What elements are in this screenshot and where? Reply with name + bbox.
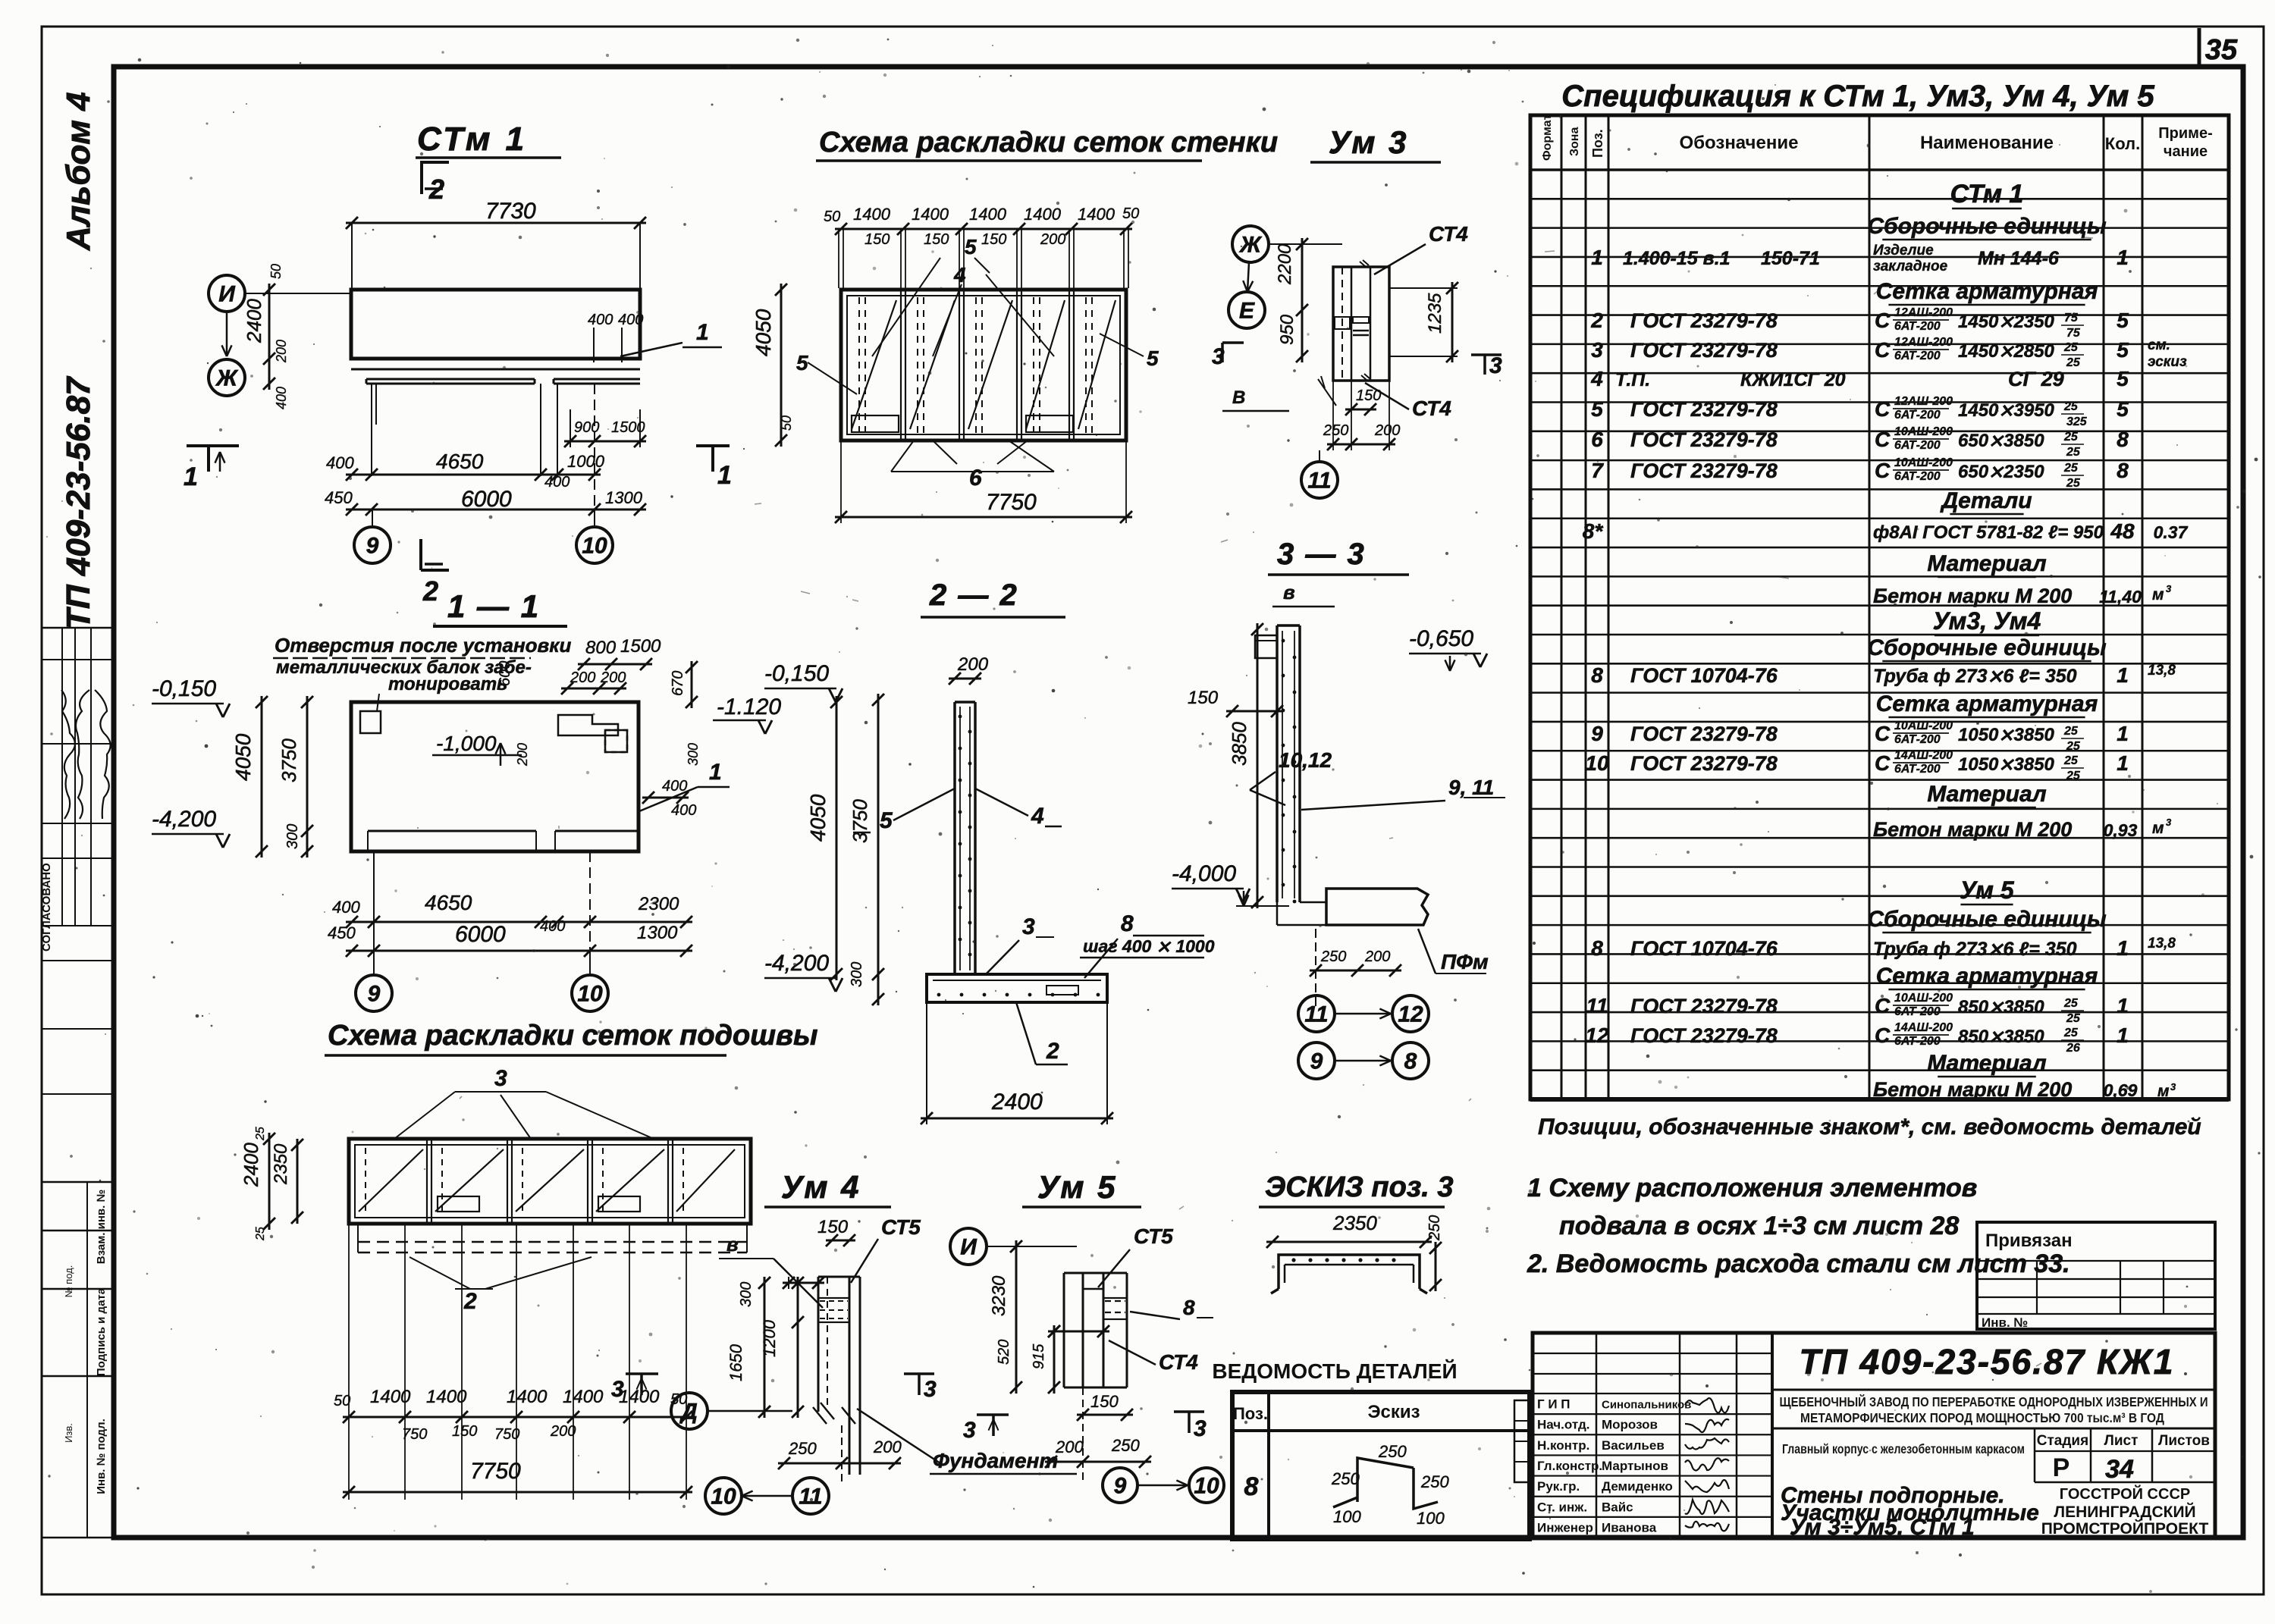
svg-text:№ под.: № под. <box>63 1265 74 1298</box>
svg-text:250: 250 <box>1420 1472 1449 1491</box>
svg-text:300: 300 <box>849 962 865 987</box>
svg-text:8: 8 <box>1121 911 1134 936</box>
svg-text:6000: 6000 <box>455 922 506 947</box>
svg-text:Гл.констр.: Гл.констр. <box>1537 1459 1602 1473</box>
svg-text:250: 250 <box>1331 1469 1360 1488</box>
svg-text:3: 3 <box>963 1418 976 1443</box>
svg-text:ГОСТ 23279-78: ГОСТ 23279-78 <box>1630 752 1778 775</box>
svg-text:900: 900 <box>574 419 599 436</box>
svg-text:14АШ-200: 14АШ-200 <box>1894 749 1953 762</box>
svg-text:-4,200: -4,200 <box>152 807 216 832</box>
svg-text:Ум 4: Ум 4 <box>781 1169 861 1205</box>
svg-text:1: 1 <box>184 462 198 491</box>
svg-text:2: 2 <box>428 174 444 205</box>
svg-text:ГОСТ 23279-78: ГОСТ 23279-78 <box>1630 459 1778 482</box>
svg-text:150: 150 <box>981 231 1006 248</box>
svg-text:200: 200 <box>873 1437 902 1456</box>
svg-text:1: 1 <box>709 760 722 785</box>
svg-text:см.: см. <box>2148 337 2170 353</box>
svg-text:6АТ-200: 6АТ-200 <box>1894 409 1941 422</box>
svg-text:8: 8 <box>1183 1296 1195 1319</box>
svg-text:тонировать: тонировать <box>388 674 507 694</box>
svg-text:150: 150 <box>1188 688 1219 708</box>
svg-text:Поз.: Поз. <box>1233 1404 1268 1423</box>
svg-text:6АТ-200: 6АТ-200 <box>1894 320 1941 333</box>
svg-text:400: 400 <box>274 387 289 409</box>
svg-text:150: 150 <box>452 1423 477 1440</box>
svg-text:1300: 1300 <box>637 923 678 943</box>
svg-text:ГОСТ 23279-78: ГОСТ 23279-78 <box>1630 723 1778 745</box>
svg-text:6: 6 <box>969 466 982 491</box>
svg-text:1: 1 <box>2117 994 2129 1017</box>
svg-text:Ум3, Ум4: Ум3, Ум4 <box>1933 607 2041 635</box>
svg-text:Материал: Материал <box>1927 1051 2047 1076</box>
svg-text:25: 25 <box>2066 770 2081 782</box>
svg-text:6АТ-200: 6АТ-200 <box>1894 439 1941 452</box>
svg-text:3: 3 <box>1489 353 1502 378</box>
svg-text:СТ4: СТ4 <box>1412 397 1451 420</box>
svg-text:200: 200 <box>1374 422 1400 439</box>
svg-text:5: 5 <box>880 808 893 833</box>
svg-text:1: 1 <box>1591 246 1603 269</box>
svg-text:СОГЛАСОВАНО: СОГЛАСОВАНО <box>40 863 53 952</box>
svg-text:600: 600 <box>497 661 513 686</box>
svg-text:ЛЕНИНГРАДСКИЙ: ЛЕНИНГРАДСКИЙ <box>2054 1503 2195 1521</box>
svg-text:25: 25 <box>254 1227 267 1241</box>
svg-text:Схема раскладки сеток стенки: Схема раскладки сеток стенки <box>819 127 1278 158</box>
svg-text:Сетка арматурная: Сетка арматурная <box>1876 691 2098 716</box>
svg-text:в: в <box>726 1233 739 1256</box>
svg-text:5: 5 <box>796 351 808 375</box>
svg-text:2: 2 <box>1046 1039 1059 1064</box>
svg-text:325: 325 <box>2066 415 2088 428</box>
svg-text:ПФм: ПФм <box>1441 950 1489 973</box>
svg-text:СТ5: СТ5 <box>1134 1224 1173 1248</box>
svg-text:СТ4: СТ4 <box>1159 1350 1198 1374</box>
svg-text:3750: 3750 <box>849 799 871 843</box>
svg-text:200: 200 <box>550 1423 576 1440</box>
svg-text:1400: 1400 <box>370 1387 411 1407</box>
svg-text:Сборочные единицы: Сборочные единицы <box>1867 214 2107 239</box>
svg-text:25: 25 <box>2063 1027 2079 1039</box>
svg-text:26: 26 <box>2066 1042 2080 1055</box>
svg-text:25: 25 <box>2063 341 2079 354</box>
svg-text:250: 250 <box>1320 948 1346 965</box>
svg-text:С: С <box>1875 397 1891 421</box>
svg-text:1 Схему расположения элементов: 1 Схему расположения элементов <box>1527 1174 1977 1202</box>
svg-text:100: 100 <box>1333 1507 1361 1526</box>
svg-text:1050⨯3850: 1050⨯3850 <box>1958 725 2055 745</box>
svg-text:12: 12 <box>1585 1024 1609 1047</box>
svg-text:Позиции, обозначенные знаком*,: Позиции, обозначенные знаком*, см. ведом… <box>1538 1115 2201 1140</box>
svg-text:1400: 1400 <box>853 205 891 224</box>
svg-text:Бетон марки М 200: Бетон марки М 200 <box>1873 585 2072 607</box>
svg-text:1: 1 <box>2117 1024 2129 1047</box>
svg-text:6АТ-200: 6АТ-200 <box>1894 470 1941 483</box>
svg-text:1: 1 <box>2117 663 2129 687</box>
svg-text:200: 200 <box>957 654 989 675</box>
svg-text:Инженер: Инженер <box>1537 1520 1593 1535</box>
svg-text:3750: 3750 <box>278 738 300 782</box>
svg-text:Т.П.: Т.П. <box>1615 369 1650 390</box>
svg-text:чание: чание <box>2164 143 2208 160</box>
svg-text:650⨯2350: 650⨯2350 <box>1958 462 2044 482</box>
svg-text:300: 300 <box>686 743 701 766</box>
svg-text:3: 3 <box>2170 1081 2176 1093</box>
svg-text:Изв.: Изв. <box>63 1423 74 1443</box>
svg-text:670: 670 <box>670 671 686 696</box>
svg-text:Е: Е <box>1239 299 1255 324</box>
svg-text:Альбом 4: Альбом 4 <box>60 92 97 251</box>
svg-text:25: 25 <box>2063 431 2079 444</box>
svg-text:2: 2 <box>463 1289 477 1314</box>
svg-text:4: 4 <box>1590 367 1603 390</box>
svg-text:300: 300 <box>284 824 301 849</box>
svg-text:2300: 2300 <box>638 894 679 914</box>
svg-text:МЕТАМОРФИЧЕСКИХ ПОРОД МОЩНОСТЬ: МЕТАМОРФИЧЕСКИХ ПОРОД МОЩНОСТЬЮ 700 тыс.… <box>1800 1410 2164 1425</box>
svg-text:Ст. инж.: Ст. инж. <box>1537 1500 1587 1514</box>
svg-text:ГОСТ 23279-78: ГОСТ 23279-78 <box>1630 995 1778 1017</box>
svg-text:1400: 1400 <box>969 205 1007 224</box>
svg-text:СТм 1: СТм 1 <box>1950 180 2024 208</box>
svg-text:ф8АІ ГОСТ 5781-82 ℓ= 950: ф8АІ ГОСТ 5781-82 ℓ= 950 <box>1873 522 2104 543</box>
svg-text:4050: 4050 <box>231 733 255 781</box>
svg-text:Морозов: Морозов <box>1602 1418 1658 1432</box>
svg-text:35: 35 <box>2205 34 2238 66</box>
svg-text:8: 8 <box>2117 459 2129 482</box>
svg-text:1.400-15 в.1: 1.400-15 в.1 <box>1623 248 1731 269</box>
svg-text:10: 10 <box>711 1484 736 1510</box>
svg-text:Д: Д <box>679 1400 698 1425</box>
svg-text:С: С <box>1875 338 1891 362</box>
svg-text:915: 915 <box>1031 1343 1047 1369</box>
svg-text:850⨯3850: 850⨯3850 <box>1958 1027 2044 1047</box>
svg-text:50: 50 <box>1122 205 1139 222</box>
svg-text:Лист: Лист <box>2104 1433 2138 1449</box>
svg-text:1: 1 <box>717 461 732 490</box>
svg-text:2 — 2: 2 — 2 <box>929 578 1018 612</box>
svg-text:4050: 4050 <box>752 309 775 356</box>
svg-text:11: 11 <box>1304 1002 1328 1027</box>
svg-text:1400: 1400 <box>507 1387 548 1407</box>
svg-text:150: 150 <box>1090 1392 1119 1411</box>
svg-text:1: 1 <box>2117 751 2129 775</box>
svg-text:Зона: Зона <box>1568 127 1581 156</box>
svg-text:10: 10 <box>582 534 607 559</box>
svg-text:3 — 3: 3 — 3 <box>1277 538 1366 571</box>
svg-text:9, 11: 9, 11 <box>1448 776 1494 799</box>
svg-text:50: 50 <box>334 1393 350 1409</box>
svg-text:0,69: 0,69 <box>2104 1080 2138 1100</box>
svg-text:ПРОМСТРОЙПРОЕКТ: ПРОМСТРОЙПРОЕКТ <box>2041 1519 2209 1538</box>
svg-text:ВЕДОМОСТЬ ДЕТАЛЕЙ: ВЕДОМОСТЬ ДЕТАЛЕЙ <box>1212 1359 1457 1383</box>
svg-text:9: 9 <box>1114 1474 1127 1499</box>
svg-text:-4,200: -4,200 <box>764 951 829 976</box>
svg-text:1: 1 <box>696 320 709 345</box>
svg-text:750: 750 <box>494 1426 519 1443</box>
svg-text:6АТ-200: 6АТ-200 <box>1894 1035 1941 1048</box>
svg-text:14АШ-200: 14АШ-200 <box>1894 1021 1953 1034</box>
svg-text:1235: 1235 <box>1425 293 1445 334</box>
svg-text:3: 3 <box>1022 914 1035 939</box>
svg-text:10АШ-200: 10АШ-200 <box>1894 720 1953 732</box>
svg-text:В: В <box>1232 387 1245 408</box>
svg-text:400: 400 <box>618 312 643 328</box>
svg-text:5: 5 <box>1591 397 1603 421</box>
svg-text:48: 48 <box>2110 519 2135 543</box>
svg-text:Листов: Листов <box>2158 1433 2210 1449</box>
svg-text:6АТ-200: 6АТ-200 <box>1894 763 1941 776</box>
svg-text:10АШ-200: 10АШ-200 <box>1894 425 1953 438</box>
svg-text:С: С <box>1875 751 1891 775</box>
svg-text:ГОССТРОЙ СССР: ГОССТРОЙ СССР <box>2060 1484 2190 1503</box>
svg-text:250: 250 <box>788 1439 817 1458</box>
svg-text:Васильев: Васильев <box>1602 1438 1665 1453</box>
svg-text:Отверстия после установки: Отверстия после установки <box>275 634 571 657</box>
svg-text:Главный корпус с железобетонны: Главный корпус с железобетонным каркасом <box>1782 1441 2025 1456</box>
svg-text:Р: Р <box>2053 1453 2070 1482</box>
svg-text:Сетка арматурная: Сетка арматурная <box>1876 279 2098 304</box>
svg-text:10АШ-200: 10АШ-200 <box>1894 456 1953 469</box>
svg-text:СГ 29: СГ 29 <box>2008 368 2064 390</box>
svg-text:6АТ-200: 6АТ-200 <box>1894 350 1941 362</box>
svg-text:Труба ф 273⨯6 ℓ= 350: Труба ф 273⨯6 ℓ= 350 <box>1873 666 2077 687</box>
svg-text:1400: 1400 <box>619 1387 660 1407</box>
svg-text:1400: 1400 <box>563 1387 604 1407</box>
svg-text:400: 400 <box>671 802 696 819</box>
svg-text:75: 75 <box>2064 312 2079 324</box>
svg-text:Труба ф 273⨯6 ℓ= 350: Труба ф 273⨯6 ℓ= 350 <box>1873 939 2077 960</box>
svg-text:Материал: Материал <box>1927 551 2047 576</box>
svg-text:8: 8 <box>1591 936 1603 960</box>
svg-text:2: 2 <box>422 575 438 607</box>
svg-text:75: 75 <box>2066 327 2081 340</box>
svg-text:10: 10 <box>577 982 603 1007</box>
svg-text:25: 25 <box>2063 997 2079 1010</box>
svg-text:1400: 1400 <box>1024 205 1062 224</box>
svg-text:1400: 1400 <box>426 1387 467 1407</box>
svg-text:Обозначение: Обозначение <box>1680 133 1799 153</box>
svg-text:1650: 1650 <box>726 1343 745 1381</box>
svg-text:Бетон марки М 200: Бетон марки М 200 <box>1873 1078 2072 1101</box>
svg-text:шаг 400 ⨯ 1000: шаг 400 ⨯ 1000 <box>1083 936 1215 956</box>
svg-text:Инв. № подл.: Инв. № подл. <box>95 1419 108 1494</box>
svg-text:5: 5 <box>2117 338 2129 362</box>
svg-text:8: 8 <box>1404 1049 1417 1074</box>
svg-text:8: 8 <box>1591 663 1603 687</box>
svg-text:ГОСТ 23279-78: ГОСТ 23279-78 <box>1630 309 1778 332</box>
svg-text:Ум 5: Ум 5 <box>1960 876 2014 904</box>
svg-text:300: 300 <box>738 1282 755 1307</box>
svg-text:Мартынов: Мартынов <box>1602 1459 1668 1473</box>
svg-text:3: 3 <box>1194 1416 1207 1441</box>
svg-text:9: 9 <box>1310 1049 1323 1074</box>
svg-text:Спецификация к СТм 1, Ум3,: Спецификация к СТм 1, Ум3, Ум 4, Ум 5 <box>1561 80 2154 113</box>
svg-text:200: 200 <box>1055 1437 1084 1456</box>
svg-text:0,93: 0,93 <box>2104 820 2138 840</box>
svg-text:ЭСКИЗ поз. 3: ЭСКИЗ поз. 3 <box>1265 1171 1453 1203</box>
svg-text:9: 9 <box>1591 722 1603 745</box>
svg-text:4050: 4050 <box>806 794 830 842</box>
svg-text:-1.120: -1.120 <box>717 694 781 720</box>
svg-text:12: 12 <box>1398 1002 1423 1027</box>
svg-text:С: С <box>1875 1024 1891 1047</box>
svg-text:1: 1 <box>2117 722 2129 745</box>
svg-text:400: 400 <box>326 453 354 472</box>
svg-text:1450⨯2850: 1450⨯2850 <box>1958 341 2055 362</box>
svg-text:3230: 3230 <box>989 1275 1009 1316</box>
svg-text:СТ4: СТ4 <box>1429 222 1468 246</box>
svg-text:25: 25 <box>2063 462 2079 475</box>
svg-text:25: 25 <box>2063 400 2079 413</box>
svg-text:2400: 2400 <box>991 1089 1043 1115</box>
svg-text:в: в <box>1283 581 1295 604</box>
svg-text:3: 3 <box>1591 338 1603 362</box>
svg-text:2400: 2400 <box>240 1143 262 1187</box>
svg-text:3850: 3850 <box>1228 722 1250 766</box>
svg-text:13,8: 13,8 <box>2148 663 2176 679</box>
svg-text:-0,650: -0,650 <box>1409 626 1473 651</box>
svg-text:Детали: Детали <box>1939 488 2032 513</box>
svg-text:-0,150: -0,150 <box>764 661 829 686</box>
svg-text:-4,000: -4,000 <box>1172 861 1236 886</box>
svg-text:ГОСТ 23279-78: ГОСТ 23279-78 <box>1630 1024 1778 1047</box>
svg-text:4: 4 <box>953 263 966 287</box>
svg-text:Стадия: Стадия <box>2037 1433 2088 1449</box>
svg-text:10: 10 <box>1194 1474 1219 1499</box>
svg-text:Кол.: Кол. <box>2105 134 2140 153</box>
svg-text:Ум 3÷Ум5. СТм 1: Ум 3÷Ум5. СТм 1 <box>1790 1515 1975 1540</box>
svg-text:9: 9 <box>366 534 379 559</box>
svg-text:Сборочные единицы: Сборочные единицы <box>1867 907 2107 932</box>
svg-text:4650: 4650 <box>425 891 472 914</box>
svg-text:И: И <box>218 282 236 307</box>
svg-text:200: 200 <box>1040 231 1065 248</box>
svg-text:Подпись и дата: Подпись и дата <box>95 1287 108 1376</box>
svg-text:8: 8 <box>2117 428 2129 451</box>
svg-text:7750: 7750 <box>986 490 1037 515</box>
svg-text:Сетка арматурная: Сетка арматурная <box>1876 964 2098 989</box>
svg-text:2. Ведомость расхода стали см: 2. Ведомость расхода стали см лист 33. <box>1527 1249 2070 1278</box>
svg-text:5: 5 <box>2117 309 2129 332</box>
svg-text:Сборочные единицы: Сборочные единицы <box>1867 635 2107 660</box>
svg-text:м: м <box>2152 820 2164 837</box>
svg-text:200: 200 <box>1364 948 1390 965</box>
svg-text:2350: 2350 <box>271 1143 291 1185</box>
svg-text:Наименование: Наименование <box>1920 133 2054 153</box>
svg-text:ТП 409-23-56.87 КЖ1: ТП 409-23-56.87 КЖ1 <box>1800 1342 2175 1381</box>
svg-text:м: м <box>2152 586 2164 604</box>
svg-text:0.37: 0.37 <box>2154 522 2189 542</box>
svg-text:подвала в осях 1÷3 см лист 28: подвала в осях 1÷3 см лист 28 <box>1559 1212 1959 1240</box>
svg-text:ГОСТ 10704-76: ГОСТ 10704-76 <box>1630 937 1778 960</box>
svg-text:1400: 1400 <box>1078 205 1116 224</box>
svg-text:Ум 5: Ум 5 <box>1037 1169 1118 1205</box>
svg-text:25: 25 <box>2066 446 2081 459</box>
svg-text:Инв. №: Инв. № <box>1982 1315 2028 1330</box>
svg-text:11: 11 <box>1586 994 1608 1017</box>
svg-text:25: 25 <box>254 1127 267 1141</box>
svg-text:450: 450 <box>325 488 353 507</box>
svg-text:250: 250 <box>1323 422 1348 439</box>
svg-text:Демиденко: Демиденко <box>1602 1479 1673 1494</box>
svg-text:150: 150 <box>924 231 949 248</box>
svg-text:850⨯3850: 850⨯3850 <box>1958 997 2044 1017</box>
svg-text:150-71: 150-71 <box>1761 248 1820 269</box>
svg-text:50: 50 <box>824 208 840 225</box>
svg-text:-0,150: -0,150 <box>152 676 216 701</box>
svg-text:Иванова: Иванова <box>1602 1520 1657 1535</box>
svg-text:С: С <box>1875 309 1891 332</box>
svg-text:2350: 2350 <box>1332 1212 1377 1234</box>
svg-text:ГОСТ 10704-76: ГОСТ 10704-76 <box>1630 664 1778 687</box>
svg-text:1500: 1500 <box>620 636 661 657</box>
svg-text:450: 450 <box>328 923 356 942</box>
svg-text:100: 100 <box>1417 1509 1445 1528</box>
svg-text:25: 25 <box>2066 740 2081 753</box>
svg-text:6АТ-200: 6АТ-200 <box>1894 1005 1941 1018</box>
svg-text:3: 3 <box>1212 344 1225 369</box>
svg-text:1000: 1000 <box>567 452 605 471</box>
svg-text:С: С <box>1875 428 1891 451</box>
svg-text:5: 5 <box>1147 346 1159 370</box>
svg-text:6000: 6000 <box>461 487 512 512</box>
svg-text:Бетон марки М 200: Бетон марки М 200 <box>1873 818 2072 841</box>
svg-text:11,40: 11,40 <box>2099 587 2142 607</box>
svg-text:11: 11 <box>1307 469 1331 494</box>
svg-text:Поз.: Поз. <box>1590 129 1605 158</box>
svg-text:закладное: закладное <box>1873 259 1948 274</box>
svg-text:200: 200 <box>515 743 530 767</box>
svg-text:Фундамент: Фундамент <box>933 1449 1058 1472</box>
svg-text:250: 250 <box>1378 1442 1407 1461</box>
svg-text:И: И <box>960 1235 977 1260</box>
svg-text:10АШ-200: 10АШ-200 <box>1894 992 1953 1005</box>
svg-text:7730: 7730 <box>485 199 536 224</box>
svg-text:ГОСТ 23279-78: ГОСТ 23279-78 <box>1630 339 1778 362</box>
svg-text:34: 34 <box>2105 1455 2134 1484</box>
svg-text:9: 9 <box>368 982 381 1007</box>
svg-text:Привязан: Привязан <box>1985 1231 2073 1251</box>
svg-text:-1,000: -1,000 <box>436 732 497 755</box>
svg-text:1200: 1200 <box>760 1319 779 1357</box>
svg-text:ТП 409-23-56.87: ТП 409-23-56.87 <box>60 375 97 629</box>
svg-text:1: 1 <box>2117 936 2129 960</box>
svg-text:750: 750 <box>402 1426 427 1443</box>
svg-text:Нач.отд.: Нач.отд. <box>1537 1418 1589 1432</box>
svg-text:1 — 1: 1 — 1 <box>447 588 540 624</box>
svg-text:1450⨯3950: 1450⨯3950 <box>1958 400 2055 421</box>
svg-text:Г И П: Г И П <box>1537 1397 1571 1412</box>
svg-text:ЩЕБЕНОЧНЫЙ ЗАВОД ПО ПЕРЕРАБОТК: ЩЕБЕНОЧНЫЙ ЗАВОД ПО ПЕРЕРАБОТКЕ ОДНОРОДН… <box>1780 1394 2208 1409</box>
svg-text:6АТ-200: 6АТ-200 <box>1894 733 1941 746</box>
svg-text:4650: 4650 <box>436 450 484 473</box>
svg-text:7750: 7750 <box>470 1459 521 1484</box>
svg-text:Синопальников: Синопальников <box>1602 1399 1691 1412</box>
svg-text:1400: 1400 <box>912 205 949 224</box>
svg-text:Изделие: Изделие <box>1873 243 1934 259</box>
svg-text:2200: 2200 <box>1275 243 1295 285</box>
svg-text:м: м <box>2157 1083 2170 1100</box>
svg-text:650⨯3850: 650⨯3850 <box>1958 431 2044 451</box>
svg-text:С: С <box>1875 459 1891 482</box>
svg-text:1050⨯3850: 1050⨯3850 <box>1958 754 2055 775</box>
svg-text:1450⨯2350: 1450⨯2350 <box>1958 312 2055 332</box>
svg-text:Ж: Ж <box>1238 233 1263 258</box>
svg-text:Приме-: Приме- <box>2158 125 2212 142</box>
svg-text:3: 3 <box>611 1377 624 1402</box>
svg-text:КЖИ1СГ 20: КЖИ1СГ 20 <box>1740 369 1846 390</box>
